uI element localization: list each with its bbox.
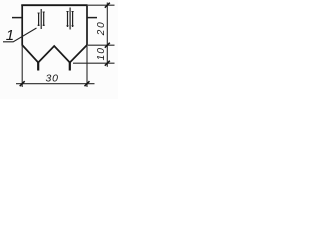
tick right of 30: [85, 81, 90, 86]
svg-text:20: 20: [96, 20, 107, 36]
extension line top (dim 20): [88, 4, 115, 6]
bunker right wall: [86, 5, 88, 46]
inlet stub on left wall: [12, 17, 22, 19]
left extension line for dim 30: [21, 46, 23, 88]
hopper bottom: twin funnel zigzag: [22, 45, 87, 63]
label 1 leader line with shelf: [3, 28, 37, 42]
tick at top of 20: [105, 3, 110, 8]
right outlet stem: [69, 62, 71, 71]
tick between 20 and 10: [105, 43, 110, 48]
vertical dimension line: [106, 3, 108, 67]
tick left of 30: [20, 81, 25, 86]
inlet stub on right wall: [87, 17, 97, 19]
extension line bottom (dim 10): [73, 62, 115, 64]
vibrator symbol 1 (left): [38, 9, 45, 29]
svg-text:30: 30: [46, 73, 59, 85]
svg-text:10: 10: [96, 47, 107, 61]
extension line mid (dim 20/10): [88, 44, 115, 46]
horizontal dimension line 30: [16, 83, 95, 85]
left outlet stem: [37, 62, 39, 71]
bunker top edge: [21, 4, 87, 6]
right extension line for dim 30: [86, 46, 88, 88]
bunker left wall: [21, 5, 23, 46]
svg-text:1: 1: [6, 27, 14, 44]
vibrator symbol 2 (right): [66, 8, 73, 30]
tick at bottom of 10: [105, 61, 110, 66]
